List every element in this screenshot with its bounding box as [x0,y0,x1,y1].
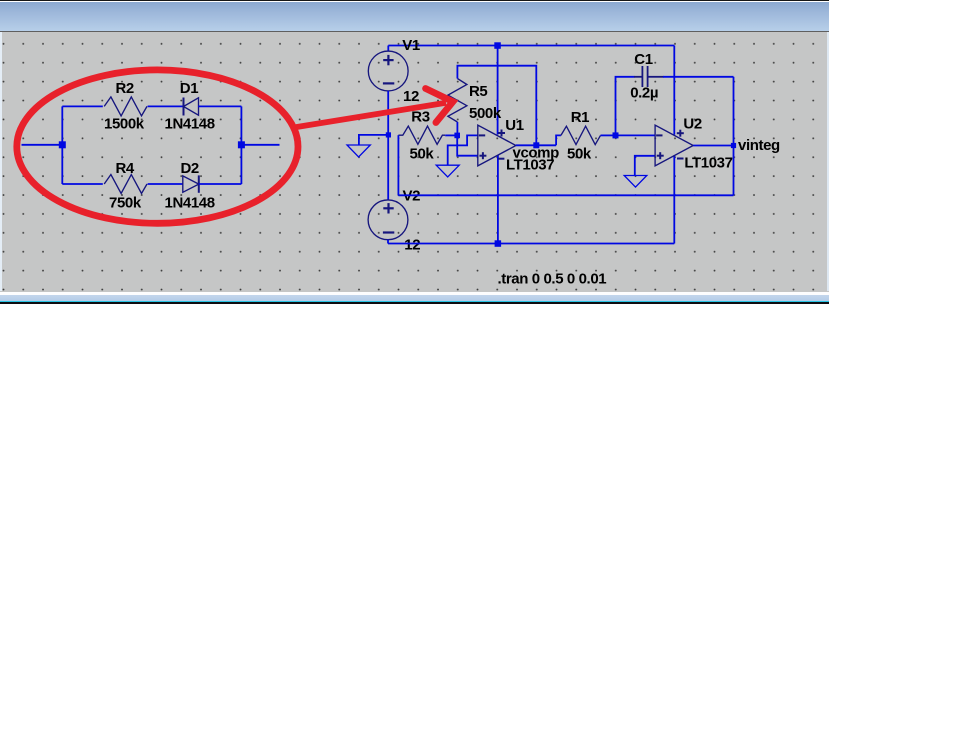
svg-text:750k: 750k [109,195,142,212]
ground (U1 minus input) [436,165,459,177]
wire V2 bottom lead [387,240,389,244]
svg-text:vinteg: vinteg [738,137,780,154]
wire top branch left segment [62,105,103,107]
svg-text:U1: U1 [505,117,523,134]
svg-text:R5: R5 [469,83,487,100]
wire R1 to node [601,134,616,136]
wire node up to C1 [616,77,635,136]
value LT1037 (U2) [684,155,732,172]
ground (V1/V2 midpoint) [347,145,370,157]
label R4 [116,160,135,177]
label D2 [181,160,199,177]
annotation red arrow [296,89,453,128]
label R2 [116,80,134,97]
capacitor C1 [634,66,664,87]
wire U1 output [516,144,556,146]
resistor R3 [398,126,445,144]
label R1 [571,109,589,126]
svg-text:1N4148: 1N4148 [165,116,215,133]
wire R3 to node [445,134,457,136]
svg-text:LT1037: LT1037 [684,155,732,172]
wire R3 left drop [397,135,399,195]
value 12 (V2) [404,237,420,254]
svg-text:12: 12 [403,88,419,105]
value LT1037 (U1) [506,156,554,173]
annotation red ellipse [17,70,298,223]
node junction V1/V2 midpoint [386,132,391,137]
value 500k [469,105,502,122]
wire U2 V+ supply drop [673,46,675,135]
label U2 [683,116,701,133]
wire R5 bottom lead [456,122,458,135]
svg-text:U2: U2 [683,116,701,133]
svg-text:LT1037: LT1037 [506,156,554,173]
ground (U2 plus input) [624,176,647,188]
wire bottom branch left segment [62,183,103,185]
svg-text:1500k: 1500k [104,116,145,133]
node junction bottom rail [495,240,502,247]
label D1 [180,80,198,97]
wire left lead of diode network [22,144,63,146]
wire top supply rail [388,45,674,47]
node junction top rail [494,42,501,49]
wire left vertical of diode network [61,106,63,184]
node junction vinteg [731,143,736,148]
wire U1 V- supply drop [497,155,499,244]
wire jog up to R1 [556,135,561,145]
wire U2 minus input [616,134,656,136]
label U1 [505,117,523,134]
label V1 [402,37,420,54]
value 1N4148 (D2) [165,195,215,212]
svg-text:C1: C1 [634,51,652,68]
svg-text:50k: 50k [410,146,435,163]
wire C1 to right vertical [663,76,734,78]
net name vinteg [738,137,780,154]
svg-text:R1: R1 [571,109,589,126]
wire integrator feedback (long bottom horizontal) [398,194,733,196]
label R3 [411,109,429,126]
wire U1 V+ supply drop [497,46,499,135]
resistor R1 [561,126,601,144]
wire U2 plus input to ground [635,156,655,176]
wire U1 minus input to ground [448,135,478,165]
voltage source V1 [368,51,408,91]
voltage source V2 [368,200,408,240]
svg-text:D1: D1 [180,80,198,97]
wire R2 to D1 [148,105,184,107]
wire V1 top lead [387,46,389,52]
svg-text:D2: D2 [181,160,199,177]
svg-text:1N4148: 1N4148 [165,195,215,212]
wire D2 to right vertical [199,183,242,185]
svg-text:R4: R4 [116,160,135,177]
diode D1 (pointing left) [184,98,199,116]
op-amp U2 [655,125,693,166]
svg-text:.tran 0 0.5 0 0.01: .tran 0 0.5 0 0.01 [498,270,607,287]
value 1500k [104,116,145,133]
svg-text:R2: R2 [116,80,134,97]
spice directive .tran [498,270,607,287]
wire R4 to D2 [148,183,183,185]
resistor R2 [104,97,147,116]
svg-text:R3: R3 [411,109,429,126]
wire midpoint to ground [359,135,389,145]
wire bottom supply rail [388,243,674,245]
net name vcomp [513,144,560,161]
node junction R1/C1/U2- [613,132,619,138]
label V2 [403,187,421,204]
diode D2 (pointing right) [183,175,199,192]
wire R5 top lead and feedback to U1 output [457,66,536,146]
value 50k (R3) [410,146,435,163]
label C1 [634,51,652,68]
node junction U1 output / R5 [533,142,539,148]
node junction left [59,141,66,148]
node junction R3/R5/U1+ [454,133,460,139]
value 0.2u [630,85,658,102]
resistor R4 [104,175,147,194]
wire D1 to right vertical [198,105,241,107]
resistor R5 [448,79,467,123]
svg-text:0.2µ: 0.2µ [630,85,658,102]
wire U2 V- supply drop [673,155,675,243]
node junction right [238,141,245,148]
value 12 (V1) [403,88,419,105]
svg-text:500k: 500k [469,105,502,122]
value 1N4148 (D1) [165,116,215,133]
svg-text:12: 12 [404,237,420,254]
wire right vertical of diode network [240,106,242,184]
value 750k [109,195,142,212]
wire U1 plus input to node [457,135,478,155]
svg-text:50k: 50k [567,145,592,162]
wire V1 bottom to V2 top [387,91,389,200]
wire right lead of diode network [241,144,279,146]
wire right vertical to vinteg/C1 [733,77,735,196]
wire U2 output [693,145,733,147]
value 50k (R1) [567,145,592,162]
svg-text:V1: V1 [402,37,420,54]
op-amp U1 [478,125,516,166]
label R5 [469,83,487,100]
